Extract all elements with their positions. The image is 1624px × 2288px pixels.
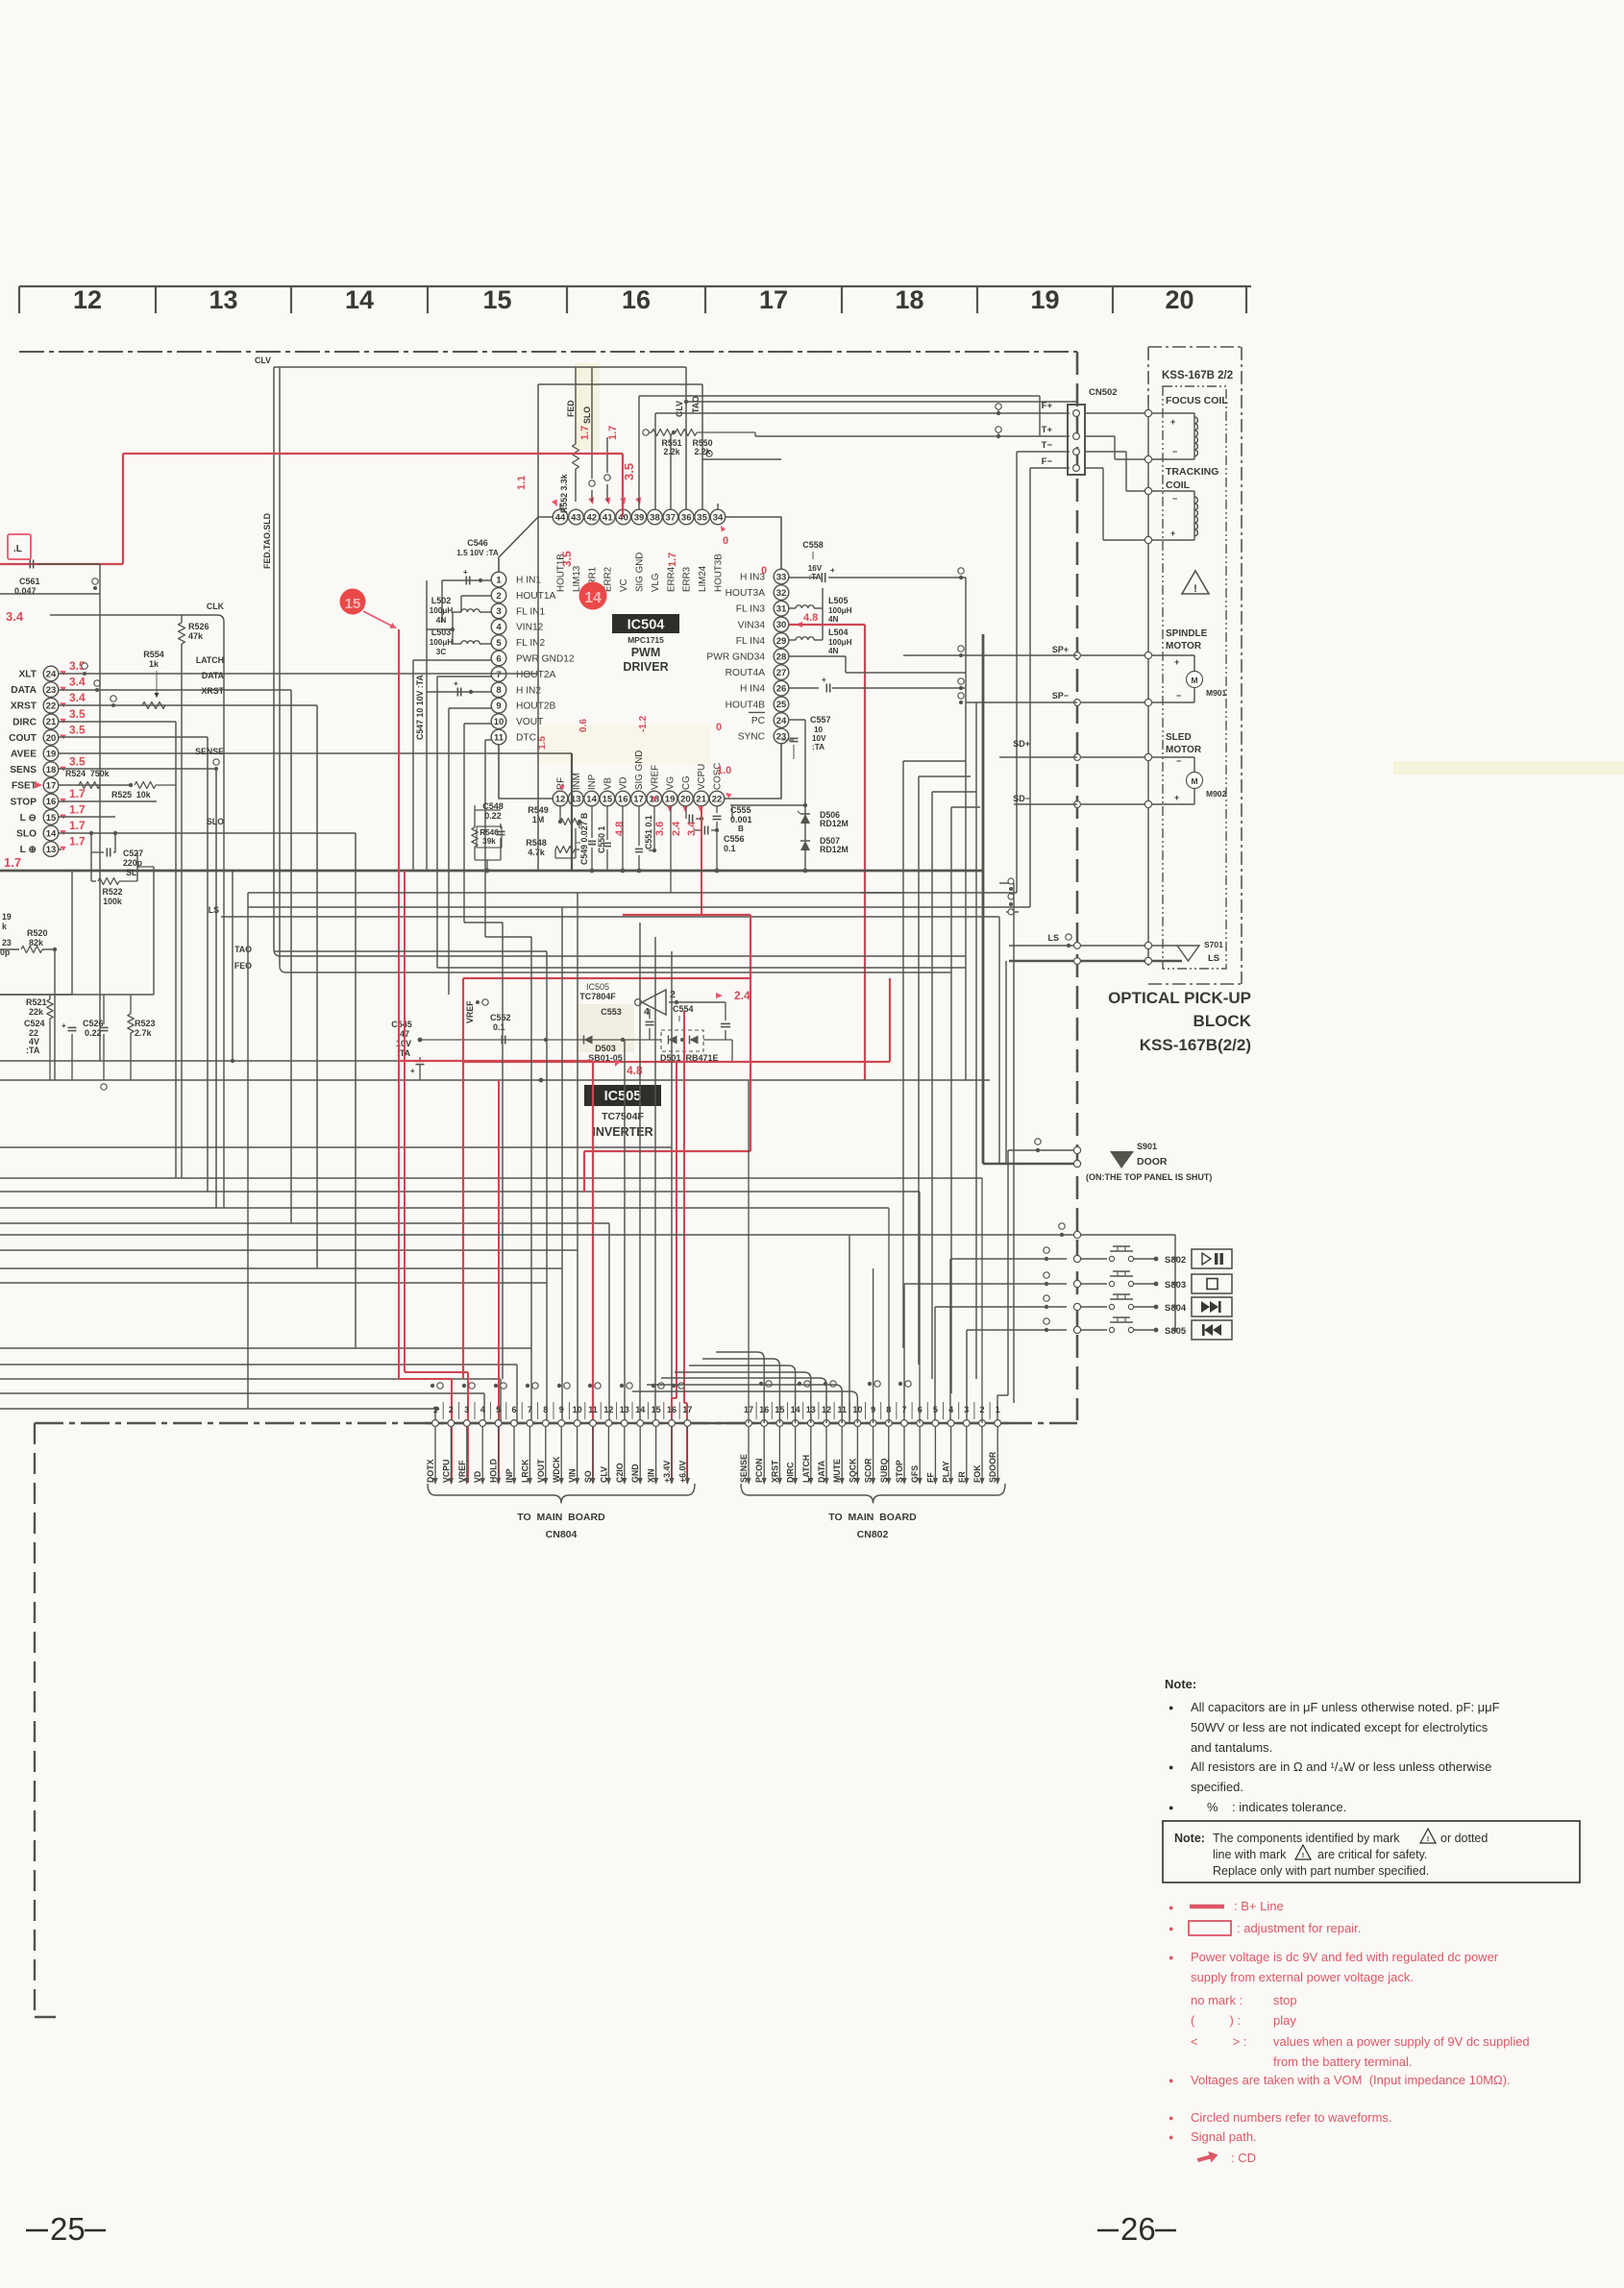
capacitor C555 C556 (694, 805, 752, 873)
svg-text:MOTOR: MOTOR (1166, 641, 1202, 652)
svg-text:7: 7 (496, 670, 501, 680)
switch S802 play (1019, 1246, 1232, 1268)
wire flex cable line (1147, 404, 1149, 966)
svg-text:SLO: SLO (207, 817, 224, 826)
svg-text:3.5: 3.5 (560, 551, 574, 567)
connector left page pins 24-13 (9, 666, 59, 856)
resistor R549 R548 capacitor C549 (526, 805, 596, 865)
svg-text:!: ! (1427, 1834, 1430, 1843)
svg-text:VD: VD (473, 1471, 482, 1483)
svg-text:VLG: VLG (651, 573, 661, 592)
wire HOUT1A stub (461, 596, 491, 612)
svg-text:TO MAIN BOARD: TO MAIN BOARD (517, 1512, 605, 1523)
svg-text:SIG GND: SIG GND (634, 750, 645, 790)
IC504 bottom pins 12-22 (553, 750, 725, 806)
svg-text:Note:: Note: (1174, 1832, 1205, 1845)
svg-text:(ON:THE TOP PANEL IS SHUT): (ON:THE TOP PANEL IS SHUT) (1086, 1172, 1212, 1182)
wire FED SLO CLV TAO risers (566, 367, 702, 509)
svg-text:IC505: IC505 (604, 1089, 642, 1104)
svg-text:SO: SO (583, 1470, 593, 1483)
svg-text:VCPU: VCPU (441, 1460, 451, 1483)
svg-text:C557: C557 (810, 715, 831, 725)
svg-text:KSS-167B(2/2): KSS-167B(2/2) (1140, 1036, 1251, 1054)
IC504 top pins 44-34 (553, 509, 726, 592)
svg-text:42: 42 (587, 512, 598, 523)
svg-text:PWM: PWM (631, 646, 661, 659)
svg-text:HOUT3A: HOUT3A (726, 588, 766, 599)
capacitor C554 (673, 989, 750, 1040)
board boundary chain line top (19, 351, 1077, 353)
inductor L503 (427, 612, 491, 656)
wire switch common (1019, 1223, 1177, 1333)
IC504 value label (612, 614, 679, 674)
svg-text:4: 4 (480, 1405, 485, 1415)
svg-text:0.001: 0.001 (730, 815, 752, 824)
wire mesh center verticals (233, 578, 1014, 1409)
legend B+ line adjustment (1169, 1899, 1361, 1935)
wire mesh left horizontals (0, 1059, 990, 1411)
svg-text:R523: R523 (135, 1019, 156, 1028)
svg-text:HOUT2B: HOUT2B (516, 701, 556, 712)
svg-text:FL IN4: FL IN4 (736, 636, 766, 647)
svg-text:47k: 47k (188, 631, 204, 641)
svg-text:13: 13 (209, 285, 237, 314)
svg-text:R521: R521 (26, 997, 47, 1007)
svg-text:Circled numbers refer to wavef: Circled numbers refer to waveforms. (1191, 2110, 1392, 2125)
svg-text:7: 7 (528, 1405, 532, 1415)
adjustment box PLL (8, 534, 31, 559)
svg-text:< > :: < > : (1191, 2034, 1247, 2049)
svg-text:ERR4: ERR4 (666, 566, 677, 592)
svg-text:: CD: : CD (1231, 2151, 1256, 2165)
svg-text:COIL: COIL (1166, 480, 1191, 491)
svg-text:1.7: 1.7 (69, 819, 86, 832)
svg-text:Replace only with part number: Replace only with part number specified. (1213, 1864, 1429, 1878)
svg-text:S901: S901 (1137, 1142, 1157, 1151)
svg-text:FF: FF (925, 1472, 935, 1483)
svg-text:FL IN1: FL IN1 (516, 606, 546, 617)
svg-text:0.22: 0.22 (484, 811, 502, 821)
svg-text:-1.2: -1.2 (638, 715, 649, 732)
svg-text:100k: 100k (103, 897, 122, 906)
svg-text:.L: .L (13, 544, 22, 554)
svg-text:INP: INP (504, 1468, 514, 1483)
wire FED.TAO.SLD vertical (262, 367, 286, 972)
svg-text:10V: 10V (812, 734, 826, 743)
scan artifact highlights (538, 363, 1624, 1052)
svg-text:C524: C524 (24, 1019, 45, 1028)
svg-text:line with mark: line with mark (1213, 1848, 1287, 1861)
svg-text:31: 31 (776, 604, 787, 615)
svg-text:MUTE: MUTE (832, 1459, 842, 1483)
svg-text:PLAY: PLAY (942, 1461, 951, 1483)
svg-text:SLED: SLED (1166, 732, 1192, 743)
svg-text:XRST: XRST (770, 1460, 779, 1483)
svg-text:SCOR: SCOR (864, 1458, 874, 1483)
wire HOUT2B (449, 708, 491, 995)
svg-text:All resistors are in Ω and ¹/₄: All resistors are in Ω and ¹/₄W or less … (1191, 1759, 1491, 1774)
svg-text:L502: L502 (431, 596, 452, 605)
svg-text:4N: 4N (828, 647, 839, 655)
svg-text:DIRC: DIRC (786, 1462, 796, 1483)
svg-text:supply from external power vol: supply from external power voltage jack. (1191, 1970, 1414, 1984)
svg-text:●: ● (1169, 1703, 1173, 1712)
svg-text:VIN: VIN (568, 1468, 578, 1483)
sled motor M902 (1074, 732, 1227, 808)
label to main board CN802 (741, 1484, 1005, 1540)
svg-text:15: 15 (482, 285, 511, 314)
svg-text:18: 18 (895, 285, 923, 314)
svg-text:13: 13 (620, 1405, 629, 1415)
label to main board CN804 (428, 1484, 695, 1540)
svg-text:DOOR: DOOR (1137, 1156, 1168, 1168)
svg-text:: B+ Line: : B+ Line (1234, 1899, 1284, 1913)
svg-text:F+: F+ (1042, 401, 1053, 411)
svg-text:17: 17 (46, 781, 57, 792)
svg-text:4.8: 4.8 (803, 612, 818, 624)
focus coil (1085, 395, 1228, 463)
svg-text:17: 17 (682, 1405, 692, 1415)
svg-text:( ) :: ( ) : (1191, 2013, 1241, 2028)
resistor R520 (0, 912, 57, 1080)
svg-text:0: 0 (716, 722, 722, 733)
svg-text:FED: FED (566, 400, 576, 417)
wires IC504 top pin stubs (559, 367, 718, 513)
svg-text:11: 11 (494, 732, 504, 743)
svg-text:SPINDLE: SPINDLE (1166, 628, 1208, 639)
svg-text:DTC: DTC (516, 733, 536, 744)
svg-text:DRIVER: DRIVER (623, 660, 668, 674)
wire HOUT2A (437, 677, 491, 968)
svg-text:DOTX: DOTX (426, 1459, 435, 1483)
page number 25 (26, 2211, 106, 2247)
svg-text:16: 16 (46, 797, 57, 807)
svg-text:RD12M: RD12M (820, 845, 849, 854)
svg-text:FEO: FEO (234, 961, 252, 971)
svg-text:●: ● (1169, 1903, 1173, 1912)
svg-text:+6.0V: +6.0V (677, 1461, 687, 1483)
resistor R554 (142, 650, 165, 709)
switch S701 LS (1009, 933, 1223, 965)
svg-text:2.7k: 2.7k (135, 1028, 153, 1038)
svg-text:FSET: FSET (12, 781, 37, 792)
red value 1.7 left edge (4, 855, 21, 870)
svg-text:SD+: SD+ (1013, 739, 1030, 749)
svg-text:HOUT3B: HOUT3B (714, 554, 725, 592)
svg-text:from the battery terminal.: from the battery terminal. (1273, 2054, 1413, 2069)
svg-text:16: 16 (622, 285, 651, 314)
svg-text:5: 5 (496, 638, 502, 649)
svg-text:9: 9 (559, 1405, 564, 1415)
svg-text:19: 19 (46, 749, 57, 759)
svg-text:C556: C556 (724, 834, 745, 844)
svg-text:100μH: 100μH (828, 638, 852, 647)
svg-text:17: 17 (759, 285, 788, 314)
svg-text:TAO: TAO (691, 396, 701, 413)
grid ruler column numbers 12-20 (19, 285, 1251, 314)
svg-text:SLO: SLO (16, 829, 37, 840)
svg-text:C545: C545 (391, 1020, 412, 1029)
svg-text:L ⊖: L ⊖ (20, 813, 37, 824)
svg-text:16: 16 (618, 794, 628, 804)
svg-text:WDCK: WDCK (552, 1456, 561, 1483)
svg-text:ERR2: ERR2 (603, 567, 614, 592)
wire CLV TAO horizontals (255, 356, 702, 384)
capacitor C552 (420, 999, 732, 1061)
wire mesh center horizontals (248, 761, 1030, 968)
svg-text:R554: R554 (143, 650, 164, 659)
svg-text:specified.: specified. (1191, 1780, 1243, 1794)
resistor R524 R525 (59, 769, 176, 800)
svg-text:3: 3 (464, 1405, 469, 1415)
svg-text:3.5: 3.5 (69, 755, 86, 769)
svg-text:INM: INM (572, 773, 582, 790)
wire PWR GND12 (413, 660, 491, 871)
svg-text:FL IN2: FL IN2 (516, 638, 546, 649)
svg-text:VG: VG (666, 776, 677, 790)
svg-text:0.6: 0.6 (578, 719, 589, 732)
svg-text:1: 1 (432, 1405, 437, 1415)
wire pin22 (717, 806, 732, 871)
wire thick bus y906 (0, 870, 983, 873)
svg-text:5: 5 (933, 1405, 938, 1415)
svg-text:!: ! (1302, 1851, 1305, 1859)
svg-text:ROUT4A: ROUT4A (726, 668, 766, 678)
svg-text:SENSE: SENSE (195, 747, 224, 756)
svg-text:●: ● (1169, 2132, 1173, 2142)
svg-text:FED.TAO.SLD: FED.TAO.SLD (262, 513, 272, 569)
svg-text:17: 17 (633, 794, 644, 804)
capacitor C558 (789, 540, 966, 582)
svg-text:The components identified by m: The components identified by mark (1213, 1832, 1400, 1845)
svg-text:0: 0 (761, 565, 767, 577)
svg-text:TO MAIN BOARD: TO MAIN BOARD (828, 1512, 917, 1523)
svg-text:2: 2 (670, 989, 676, 1000)
svg-text:% : indicates tolerance.: % : indicates tolerance. (1207, 1800, 1346, 1814)
svg-text:H IN4: H IN4 (740, 684, 765, 695)
wire staircase CN802 (632, 1352, 857, 1423)
svg-text:GND: GND (630, 1464, 640, 1483)
svg-text:24: 24 (46, 669, 57, 679)
wire H IN3 terminal (958, 568, 964, 579)
svg-text:●: ● (1169, 2113, 1173, 2123)
svg-text:23: 23 (776, 731, 787, 742)
svg-text:4: 4 (496, 623, 502, 633)
svg-text:CLV: CLV (599, 1466, 608, 1483)
svg-text:LRCK: LRCK (520, 1459, 529, 1483)
wires CN802 risers lower (889, 1178, 982, 1423)
page number 26 (1097, 2211, 1176, 2247)
svg-text:SENSE: SENSE (739, 1454, 749, 1483)
note signal path CD (1169, 2110, 1392, 2166)
svg-text:10: 10 (573, 1405, 582, 1415)
red voltage values left pins (35, 659, 86, 851)
capacitor C548 resistor R546 (472, 801, 505, 873)
svg-text:16V: 16V (808, 564, 823, 573)
svg-text:C549 0.027 B: C549 0.027 B (579, 813, 589, 865)
svg-text:22: 22 (712, 794, 723, 804)
svg-text:100μH: 100μH (430, 638, 454, 647)
svg-text:PWR GND34: PWR GND34 (706, 652, 765, 663)
wire VOUT (464, 724, 491, 923)
svg-text:10: 10 (814, 726, 824, 734)
svg-text:VD: VD (619, 776, 629, 790)
svg-text:26: 26 (776, 684, 787, 695)
IC504 left pins 1-11 (491, 572, 575, 745)
svg-text:KSS-167B 2/2: KSS-167B 2/2 (1162, 370, 1233, 381)
svg-text:1k: 1k (149, 659, 160, 669)
svg-text:FL IN3: FL IN3 (736, 604, 766, 615)
svg-text:3.4: 3.4 (6, 609, 24, 624)
svg-text:1.7: 1.7 (69, 835, 86, 849)
svg-text:values when a power supply of: values when a power supply of 9V dc supp… (1273, 2034, 1530, 2049)
svg-text:4.7k: 4.7k (528, 848, 546, 857)
svg-text:BLOCK: BLOCK (1193, 1012, 1252, 1030)
svg-text:R522: R522 (102, 887, 122, 897)
note voltages VOM (1169, 2073, 1511, 2087)
svg-text:R525 10k: R525 10k (111, 790, 151, 800)
svg-text:FR: FR (957, 1471, 967, 1483)
IC504 right pins 33-23 (706, 569, 788, 744)
svg-text:39k: 39k (482, 837, 496, 846)
svg-text:12: 12 (73, 285, 102, 314)
svg-text:CLV: CLV (675, 401, 684, 417)
svg-text:PC: PC (751, 716, 765, 726)
svg-text:CLK: CLK (207, 602, 225, 611)
svg-text:FOK: FOK (972, 1464, 982, 1483)
svg-text:3.5: 3.5 (69, 707, 86, 721)
op-amp IC505 inverter gate (579, 982, 726, 1018)
svg-text:100μH: 100μH (828, 606, 852, 615)
B+ wire VIN34 red (789, 625, 865, 1080)
svg-text::TA: :TA (26, 1046, 40, 1055)
switch S805 REW (1019, 1317, 1232, 1340)
capacitor C561 (0, 560, 100, 1062)
wire mesh drops to CN804 (435, 1147, 672, 1423)
svg-text:−: − (1176, 756, 1181, 766)
svg-text:2.2k: 2.2k (663, 447, 679, 456)
svg-text:1.7: 1.7 (667, 553, 678, 567)
svg-text:3.5: 3.5 (69, 723, 86, 736)
svg-text:GFS: GFS (910, 1465, 920, 1483)
svg-text:HOLD: HOLD (489, 1459, 499, 1483)
wires left pin fan verticals (176, 674, 572, 1348)
svg-text:L ⊕: L ⊕ (20, 845, 37, 855)
wires to CN502 (639, 396, 1077, 907)
svg-text:19: 19 (665, 794, 676, 804)
svg-text:24: 24 (776, 716, 787, 726)
terminals above CN804 (431, 1383, 684, 1389)
svg-text:+: + (454, 679, 458, 688)
inductor L505 (789, 588, 852, 624)
svg-text:+: + (830, 566, 835, 575)
svg-text:C2IO: C2IO (615, 1463, 625, 1483)
svg-text:R526: R526 (188, 622, 209, 631)
svg-text:36: 36 (681, 512, 692, 523)
svg-text:29: 29 (776, 636, 787, 647)
svg-text:+: + (1174, 793, 1179, 802)
B+ line top red (0, 454, 623, 564)
notes power voltage red (1169, 1950, 1530, 2069)
wire left branch (0, 871, 72, 995)
B+ line red loop IC505 (399, 629, 890, 1483)
svg-text:+: + (822, 676, 826, 684)
svg-text:27: 27 (776, 668, 787, 678)
wire PWR GND34 (789, 656, 966, 673)
svg-text:VREF: VREF (457, 1460, 467, 1483)
svg-text:STOP: STOP (10, 797, 37, 807)
svg-text:+: + (1174, 657, 1179, 667)
svg-text:1.1: 1.1 (516, 476, 528, 490)
svg-text:8: 8 (543, 1405, 548, 1415)
capacitor H IN4 C559 (789, 676, 966, 693)
test terminals F T lines (996, 404, 1001, 438)
svg-text:3: 3 (496, 606, 501, 617)
svg-text:LS: LS (1208, 953, 1219, 964)
svg-text:12: 12 (555, 794, 566, 804)
svg-text:1.7: 1.7 (69, 802, 86, 816)
svg-text:30: 30 (776, 620, 787, 630)
svg-text:R552 3.3k: R552 3.3k (559, 474, 569, 513)
capacitor C546 (442, 538, 499, 623)
svg-text:14: 14 (586, 794, 597, 804)
svg-text:DATA: DATA (202, 671, 225, 680)
svg-text:Voltages are taken with a VOM: Voltages are taken with a VOM (Input imp… (1191, 2073, 1511, 2087)
svg-text:16: 16 (667, 1405, 677, 1415)
spindle motor M901 (1074, 628, 1227, 706)
svg-text:32: 32 (776, 588, 787, 599)
resistor R521 capacitor C524 C526 resistor R523 (0, 867, 156, 1090)
waveform circle 15 (340, 589, 399, 631)
svg-text:C526: C526 (83, 1019, 104, 1028)
svg-text:MPC1715: MPC1715 (627, 635, 664, 645)
svg-text:4: 4 (948, 1405, 953, 1415)
svg-text:41: 41 (603, 512, 613, 523)
svg-text:L505: L505 (828, 596, 849, 605)
IC504 red voltage annotations (516, 426, 818, 836)
svg-text:TRACKING: TRACKING (1166, 466, 1218, 478)
svg-text:3C: 3C (436, 648, 447, 656)
svg-text:T−: T− (1042, 440, 1053, 451)
svg-text:IC505: IC505 (586, 982, 609, 992)
svg-text:20: 20 (680, 794, 691, 804)
switch S901 door (983, 1139, 1212, 1423)
svg-text:stop: stop (1273, 1993, 1297, 2007)
svg-text:LS: LS (1047, 933, 1059, 943)
board boundary chain line bottom (35, 1422, 1077, 1425)
svg-text:25: 25 (776, 700, 787, 710)
svg-text:6: 6 (496, 653, 501, 664)
safety warning triangle optical (1182, 571, 1209, 595)
svg-text:3.5: 3.5 (622, 463, 636, 480)
svg-text:VCPU: VCPU (697, 764, 707, 790)
svg-text:6: 6 (511, 1405, 516, 1415)
note box safety (1163, 1821, 1580, 1882)
svg-text:SIG GND: SIG GND (635, 553, 646, 592)
svg-text:and tantalums.: and tantalums. (1191, 1740, 1272, 1755)
svg-text:R546: R546 (480, 828, 499, 837)
svg-text:14: 14 (46, 828, 57, 839)
svg-text:VC: VC (619, 578, 629, 592)
svg-text:39: 39 (634, 512, 645, 523)
svg-text:13: 13 (46, 845, 57, 855)
switch S804 FF (1019, 1294, 1232, 1316)
svg-text:44: 44 (555, 512, 566, 523)
svg-text:28: 28 (776, 652, 787, 662)
svg-text:4N: 4N (436, 616, 447, 625)
svg-text:DATA: DATA (817, 1460, 826, 1483)
svg-text:2.4: 2.4 (671, 821, 682, 836)
